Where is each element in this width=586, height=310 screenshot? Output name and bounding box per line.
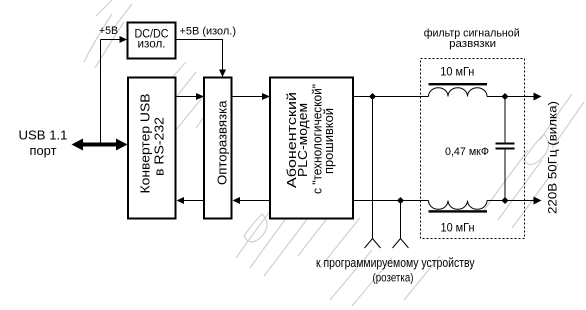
block PLC modem bbox=[270, 78, 353, 219]
wire neutral line modem to filter bbox=[354, 200, 534, 202]
svg-text:развязки: развязки bbox=[449, 38, 496, 50]
svg-text:+5В: +5В bbox=[99, 25, 118, 37]
block optocoupler bbox=[204, 78, 232, 219]
svg-text:USB 1.1: USB 1.1 bbox=[19, 127, 68, 142]
wire +5V vertical from USB bus bbox=[100, 40, 102, 145]
inductor L1 10mH bbox=[429, 65, 488, 97]
capacitor C1 0.47uF bbox=[445, 97, 515, 201]
plug prong 2 bbox=[400, 201, 402, 239]
dashed filter box bbox=[421, 59, 525, 239]
svg-text:PLC-модем: PLC-модем bbox=[295, 103, 310, 177]
junction node capacitor top bbox=[502, 93, 509, 100]
arrow modem back to optocoupler bbox=[240, 200, 270, 202]
block DC/DC isolator bbox=[128, 23, 176, 59]
svg-text:к программируемому устройству: к программируемому устройству bbox=[316, 255, 475, 270]
plug prong 1 bbox=[372, 97, 374, 239]
junction node capacitor bottom bbox=[502, 197, 509, 204]
svg-text:0,47 мкФ: 0,47 мкФ bbox=[445, 146, 489, 158]
arrow optocoupler to modem bbox=[232, 96, 263, 98]
arrow converter to optocoupler bbox=[177, 96, 197, 98]
svg-text:Опторазвязка: Опторазвязка bbox=[215, 100, 230, 185]
junction node phase bbox=[369, 93, 376, 100]
svg-text:изол.: изол. bbox=[138, 37, 166, 51]
svg-text:220В 50Гц (вилка): 220В 50Гц (вилка) bbox=[546, 101, 560, 214]
wire +5V isolated to optocoupler bbox=[176, 40, 223, 70]
wire +5V into DC/DC bbox=[101, 39, 120, 41]
svg-text:(розетка): (розетка) bbox=[373, 270, 414, 284]
block USB to RS-232 converter bbox=[128, 78, 176, 219]
svg-text:+5В (изол.): +5В (изол.) bbox=[180, 26, 237, 38]
svg-text:10 мГн: 10 мГн bbox=[440, 65, 474, 79]
arrow optocoupler back to converter bbox=[184, 200, 204, 202]
svg-text:в RS-232: в RS-232 bbox=[151, 117, 166, 176]
USB bus thick double arrow bbox=[72, 139, 128, 151]
svg-text:прошивкой: прошивкой bbox=[321, 108, 336, 174]
junction node neutral bbox=[397, 197, 404, 204]
svg-text:порт: порт bbox=[30, 143, 57, 158]
inductor L2 10mH bbox=[429, 201, 488, 235]
svg-text:10 мГн: 10 мГн bbox=[441, 221, 475, 235]
wire phase line modem to filter bbox=[354, 96, 534, 98]
